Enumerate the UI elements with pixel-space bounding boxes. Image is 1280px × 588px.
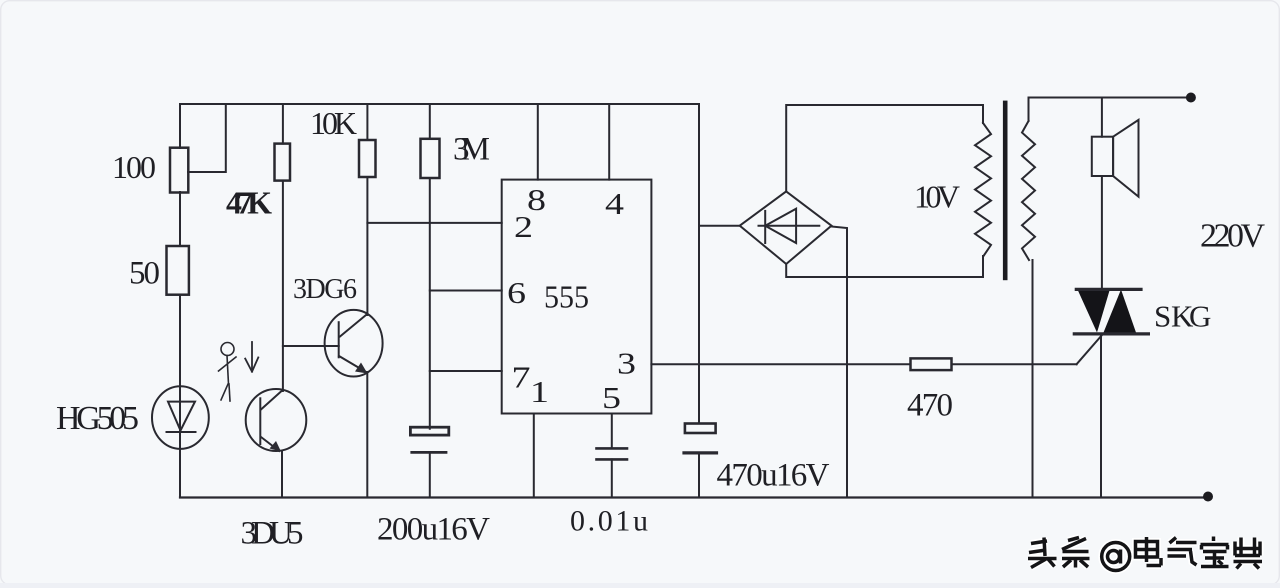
wire C2 to bottom rail — [611, 459, 613, 497]
wire rail to R5 3M — [429, 104, 431, 139]
svg-text:5: 5 — [602, 380, 621, 415]
transformer T1 secondary 10V winding — [975, 123, 991, 256]
svg-text:47K: 47K — [226, 185, 272, 221]
wire Q2 emitter to bottom rail — [366, 372, 368, 498]
wire pin5 to C2 — [611, 414, 613, 449]
wire C3 to bottom rail — [698, 453, 700, 498]
svg-text:3DU5: 3DU5 — [241, 516, 304, 552]
svg-text:1: 1 — [530, 374, 549, 409]
resistor R4 10K — [359, 140, 376, 177]
wire 555 pin2 to R4 column — [367, 222, 501, 224]
resistor R1 100 — [170, 148, 188, 193]
bridge rectifier D1 — [740, 191, 832, 264]
svg-text:3: 3 — [617, 346, 636, 381]
svg-text:10V: 10V — [914, 179, 960, 215]
svg-text:G: G — [1189, 299, 1211, 334]
wire R5 to C1 — [429, 178, 431, 429]
node mains top dot — [1186, 93, 1196, 103]
wire 555 pin6 to R5 column — [430, 290, 502, 292]
svg-text:10K: 10K — [310, 105, 357, 141]
photodiode HG505 — [152, 386, 209, 449]
wire R6 to triac gate — [952, 363, 1077, 365]
wire R4 to Q2 collector — [366, 177, 368, 315]
wire bridge bottom AC to transformer — [786, 256, 983, 277]
icon light arrow — [245, 342, 258, 372]
transformer T1 primary 220V winding — [1022, 121, 1035, 260]
wire left column drop to R1 — [179, 104, 181, 148]
node mains bottom dot — [1203, 492, 1213, 502]
svg-text:7: 7 — [512, 360, 531, 395]
icon person (light source) — [219, 343, 237, 402]
IC U1 555 — [502, 180, 652, 414]
transformer T1 core — [1003, 101, 1008, 281]
svg-text:2: 2 — [514, 209, 533, 244]
wire triac to bottom rail — [1100, 335, 1102, 498]
wire rail to R4 10K — [366, 104, 368, 140]
phototransistor Q1 3DU5 — [246, 389, 307, 452]
wire triac gate diagonal — [1077, 335, 1102, 364]
wire bridge right DC to bottom rail — [832, 227, 848, 498]
capacitor C1 200u16V — [410, 427, 448, 452]
wire bridge top AC to transformer — [786, 105, 983, 191]
wire speaker to triac — [1101, 176, 1103, 288]
triac V1 — [1074, 286, 1148, 337]
wire rail to R3 47K — [282, 104, 284, 144]
wire pin3 to R6 — [651, 363, 910, 365]
wire bottom rail — [180, 496, 1208, 498]
svg-text:4: 4 — [605, 186, 625, 221]
wire R2 to HG505 — [179, 295, 181, 498]
wire R1 mid tap to rail — [188, 104, 226, 172]
svg-text:6: 6 — [507, 275, 526, 310]
wire R1 to R2 — [179, 192, 181, 246]
resistor R3 47K — [275, 144, 291, 181]
svg-text:100: 100 — [112, 149, 156, 185]
wire speaker drop — [1101, 98, 1103, 137]
svg-text:HG505: HG505 — [56, 400, 139, 437]
svg-text:3M: 3M — [453, 132, 490, 168]
svg-text:3DG6: 3DG6 — [293, 274, 357, 305]
resistor R6 470 — [911, 358, 952, 370]
speaker LS1 — [1092, 120, 1139, 197]
IC pin number labels — [507, 182, 636, 415]
wire 555 pin7 to R5 column — [430, 370, 502, 372]
wire 220V winding top to mains — [1029, 98, 1191, 122]
wire rail to pin8 — [537, 104, 539, 180]
wire Q1 emitter to bottom rail — [281, 451, 283, 498]
wire top rail left — [180, 103, 699, 105]
resistor R5 3M — [421, 139, 440, 178]
wire R3 to Q1 collector — [282, 181, 284, 391]
wire bridge DC+ input — [699, 225, 740, 227]
transistor Q2 3DG6 — [325, 310, 383, 377]
svg-text:470u16V: 470u16V — [717, 458, 830, 494]
resistor R2 50 — [167, 246, 189, 295]
wire C1 to bottom rail — [429, 452, 431, 497]
svg-text:50: 50 — [129, 256, 160, 292]
svg-text:S: S — [1154, 299, 1171, 334]
svg-text:200u16V: 200u16V — [377, 512, 490, 548]
wire rail to pin4 — [608, 104, 610, 180]
wire rail corner down to C3 — [698, 104, 700, 424]
svg-text:555: 555 — [544, 279, 589, 315]
svg-text:0.01u: 0.01u — [570, 505, 648, 538]
capacitor C3 470u16V — [684, 424, 717, 453]
svg-text:470: 470 — [907, 388, 953, 424]
wire Q2 base — [283, 345, 339, 347]
wire 220V winding bottom to rail — [1032, 260, 1034, 498]
capacitor C2 0.01u — [597, 448, 628, 459]
wire pin1 to bottom rail — [533, 414, 535, 498]
svg-text:220V: 220V — [1200, 218, 1265, 255]
